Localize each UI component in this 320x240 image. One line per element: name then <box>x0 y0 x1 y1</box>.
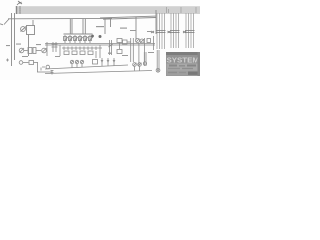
svg-text:SYSTEM: SYSTEM <box>167 55 200 64</box>
